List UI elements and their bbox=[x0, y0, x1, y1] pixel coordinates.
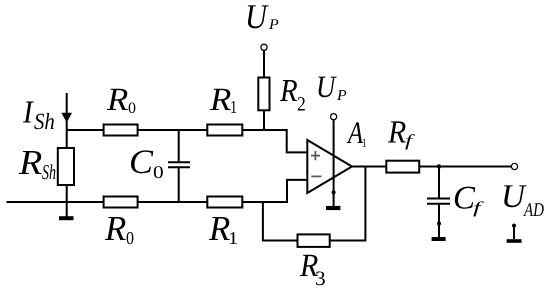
svg-text:R: R bbox=[209, 82, 232, 118]
svg-text:Sh: Sh bbox=[34, 109, 55, 135]
svg-text:Sh: Sh bbox=[42, 160, 56, 184]
svg-text:f: f bbox=[473, 198, 485, 217]
svg-text:P: P bbox=[268, 17, 279, 33]
svg-text:0: 0 bbox=[126, 228, 134, 248]
svg-text:R: R bbox=[106, 82, 129, 118]
svg-text:R: R bbox=[104, 209, 126, 248]
svg-text:U: U bbox=[316, 69, 338, 104]
svg-text:R: R bbox=[279, 72, 298, 108]
svg-text:f: f bbox=[405, 131, 416, 150]
svg-text:0: 0 bbox=[153, 162, 164, 182]
svg-text:3: 3 bbox=[315, 268, 326, 290]
svg-text:1: 1 bbox=[228, 228, 238, 248]
svg-text:0: 0 bbox=[128, 100, 136, 117]
svg-text:1: 1 bbox=[230, 97, 237, 117]
svg-text:P: P bbox=[336, 88, 347, 104]
svg-text:R: R bbox=[208, 209, 230, 248]
svg-text:1: 1 bbox=[362, 136, 367, 150]
svg-text:U: U bbox=[245, 0, 269, 36]
svg-text:C: C bbox=[129, 144, 154, 181]
svg-text:2: 2 bbox=[297, 94, 306, 116]
svg-text:R: R bbox=[387, 113, 407, 149]
svg-text:AD: AD bbox=[522, 200, 544, 221]
svg-text:I: I bbox=[22, 93, 34, 129]
svg-text:R: R bbox=[18, 143, 42, 182]
